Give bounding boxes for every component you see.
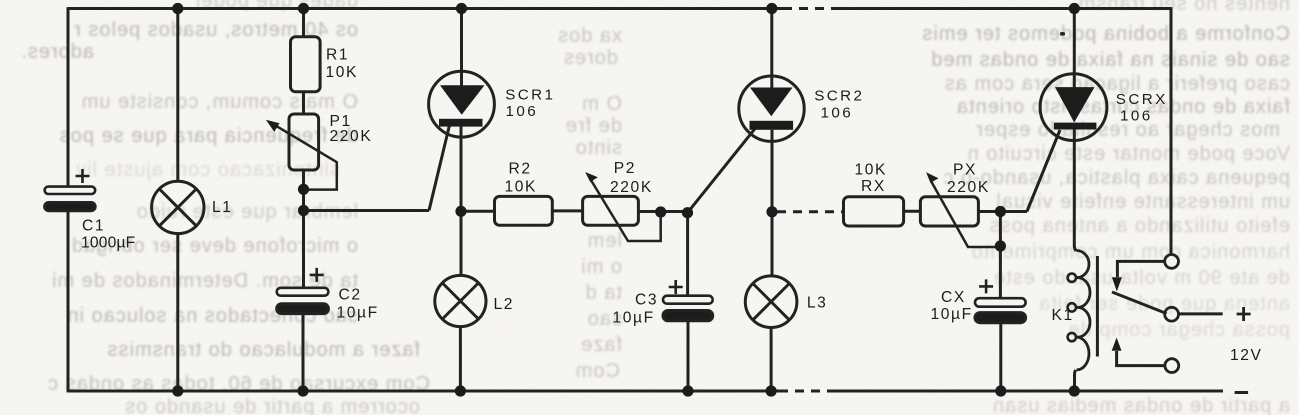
svg-text:lem: lem <box>587 230 622 252</box>
svg-text:fazer a modulacao do transmiss: fazer a modulacao do transmiss <box>107 339 420 361</box>
svg-text:106: 106 <box>506 103 539 120</box>
junction SCR2 gate node <box>682 207 693 218</box>
svg-text:CX: CX <box>941 289 966 306</box>
arrow up armature indicator <box>1112 338 1122 351</box>
capacitor C1 bottom plate <box>45 203 96 211</box>
wire top rail solid right <box>836 7 1171 10</box>
svg-text:106: 106 <box>821 104 854 121</box>
wire PX to gate node <box>978 210 1027 213</box>
junction bottom rail K1 coil <box>1069 385 1080 396</box>
wire common to plus <box>1178 312 1223 315</box>
wire bottom rail solid left <box>68 390 779 393</box>
wire top rail dashed extension <box>783 7 836 10</box>
capacitor C3 top plate <box>663 296 713 304</box>
svg-text:O mais comum, consiste um: O mais comum, consiste um <box>81 91 358 113</box>
relay contact terminal 2 (common) <box>1165 307 1179 321</box>
svg-text:L1: L1 <box>212 199 233 216</box>
svg-text:de fre: de fre <box>565 115 622 137</box>
svg-text:SCR1: SCR1 <box>505 86 555 103</box>
capacitor CX top plate <box>975 298 1026 307</box>
capacitor C2 top plate <box>277 288 329 296</box>
svg-text:SCR2: SCR2 <box>814 88 864 105</box>
svg-text:possa chegar comp de: possa chegar comp de <box>1068 319 1290 341</box>
wire SCRX gate lead <box>1027 130 1060 212</box>
svg-text:10µF: 10µF <box>613 310 655 327</box>
svg-text:P2: P2 <box>614 160 636 177</box>
junction SCR1 cathode node <box>455 206 466 217</box>
svg-text:ocorrem a partir de usando os: ocorrem a partir de usando os <box>124 396 420 415</box>
relay K1 core line <box>1096 256 1099 357</box>
wire left edge vertical below C1 <box>67 211 70 393</box>
junction top rail L1 branch <box>172 3 183 14</box>
wire SCR2 gate lead <box>688 128 756 213</box>
wire SCR1 cathode node to R2 <box>461 210 495 213</box>
potentiometer PX wiper arrow <box>931 181 1000 247</box>
svg-text:220K: 220K <box>330 128 373 145</box>
svg-text:efeito utilizando a antena pos: efeito utilizando a antena poss <box>989 215 1290 237</box>
svg-text:C1: C1 <box>82 218 105 235</box>
svg-text:faze: faze <box>580 334 622 356</box>
wire L1 branch bottom <box>176 234 179 391</box>
wire trigger bus stage3 dashed <box>777 210 844 213</box>
svg-text:L3: L3 <box>807 294 828 311</box>
junction bottom rail CX branch <box>995 385 1006 396</box>
junction top rail SCRX anode <box>1069 3 1080 14</box>
svg-text:220K: 220K <box>947 179 990 196</box>
junction PX wiper node <box>995 240 1006 251</box>
wire L1 branch top <box>176 9 179 182</box>
relay contact terminal 1 <box>1165 255 1179 269</box>
capacitor C2 plus sign <box>310 268 324 282</box>
wire bottom rail dashed extension <box>779 390 834 393</box>
wire CX to bottom rail <box>999 323 1002 391</box>
ink speck artifact <box>1060 32 1065 36</box>
potentiometer P1 wiper arrow <box>272 123 337 189</box>
wire coil to bottom rail <box>1075 370 1076 391</box>
bleed-through text left column <box>20 0 430 415</box>
supply minus sign <box>1235 391 1249 394</box>
junction P2 wiper node <box>655 206 666 217</box>
resistor RX <box>844 197 904 226</box>
svg-text:um interessante enfeite visual: um interessante enfeite visual <box>995 191 1290 213</box>
capacitor C3 bottom plate <box>663 311 713 321</box>
wire SCR1 cathode to L2 <box>460 126 463 276</box>
svg-text:harmonica com um comprimento: harmonica com um comprimento <box>971 241 1290 263</box>
wire P1 to C2 <box>302 170 305 288</box>
svg-text:dades que poder: dades que poder <box>193 0 358 12</box>
potentiometer P2 wiper arrow <box>591 180 661 242</box>
lamp L1 <box>152 181 204 233</box>
capacitor C1 plus sign <box>76 169 90 183</box>
thyristor SCR1 <box>429 71 495 137</box>
lamp L3 <box>745 276 797 328</box>
wire left edge vertical above C1 <box>67 7 70 187</box>
wire CX branch <box>999 212 1002 299</box>
junction top rail SCR1 anode <box>456 3 467 14</box>
resistor R1 <box>291 37 321 92</box>
contact blade <box>1112 292 1167 314</box>
wire R1 branch top <box>302 9 305 37</box>
potentiometer P2 body <box>583 196 639 225</box>
svg-text:xa dos: xa dos <box>557 25 622 47</box>
capacitor C2 bottom plate <box>277 304 329 314</box>
capacitor C3 plus sign <box>669 280 683 294</box>
svg-text:C3: C3 <box>635 292 658 309</box>
wire R1 to P1 <box>302 92 305 114</box>
junction SCRX gate node <box>995 206 1006 217</box>
junction bottom rail C2 branch <box>297 385 308 396</box>
wire RX to PX <box>904 210 921 213</box>
junction SCR2 cathode node <box>766 206 777 217</box>
potentiometer PX body <box>920 197 978 226</box>
junction bottom rail L1 branch <box>172 385 183 396</box>
wire C2 to bottom rail <box>302 314 305 391</box>
bleed-through text right column <box>921 0 1290 415</box>
svg-text:ta d: ta d <box>585 282 622 304</box>
wire top rail solid left <box>68 7 783 10</box>
junction bottom rail C3 branch <box>682 385 693 396</box>
svg-text:o mi: o mi <box>580 256 622 278</box>
resistor R2 <box>495 196 553 225</box>
svg-text:sinto: sinto <box>575 137 622 159</box>
svg-text:L2: L2 <box>494 296 515 313</box>
svg-text:220K: 220K <box>610 179 653 196</box>
svg-text:106: 106 <box>1120 107 1153 124</box>
svg-text:PX: PX <box>953 162 977 179</box>
junction P1 wiper node <box>298 184 309 195</box>
wire SCR1 gate lead <box>429 126 449 211</box>
wire R2 to P2 <box>552 209 582 212</box>
junction top rail SCR2 anode <box>766 3 777 14</box>
svg-text:SCRX: SCRX <box>1116 91 1168 108</box>
svg-text:10µF: 10µF <box>337 304 379 321</box>
wire P2 to gate node <box>638 210 687 213</box>
svg-text:1000µF: 1000µF <box>81 235 135 252</box>
wire trigger bus stage1 <box>304 209 430 212</box>
wire SCR2 cathode to L3 <box>771 130 774 276</box>
svg-text:R1: R1 <box>326 47 349 64</box>
svg-text:K1: K1 <box>1052 307 1074 324</box>
svg-text:C2: C2 <box>339 287 362 304</box>
thyristor SCR2 <box>739 76 804 141</box>
svg-text:RX: RX <box>861 178 886 195</box>
junction bottom rail L2 branch <box>455 385 466 396</box>
supply plus sign <box>1237 307 1251 321</box>
svg-text:a partir de ondas medias usan: a partir de ondas medias usan <box>992 395 1290 415</box>
svg-text:10µF: 10µF <box>931 306 973 323</box>
junction bottom rail L3 branch <box>766 385 777 396</box>
wire right edge vertical <box>1170 7 1173 255</box>
junction top rail R1 branch <box>298 3 309 14</box>
svg-text:10K: 10K <box>855 162 888 179</box>
wire contact1 lead <box>1117 261 1165 277</box>
svg-text:adores.: adores. <box>20 41 94 63</box>
svg-text:Voce pode montar este circuito: Voce pode montar este circuito n <box>967 143 1290 165</box>
wire L3 to bottom rail <box>770 328 773 392</box>
wire bottom rail solid right <box>834 390 1223 393</box>
svg-text:dores: dores <box>563 47 618 69</box>
svg-text:de ate 90 m volta usando este: de ate 90 m volta usando este <box>993 267 1290 289</box>
capacitor C1 top plate <box>45 187 96 194</box>
svg-text:Com: Com <box>575 360 620 382</box>
wire SCRX cathode to relay coil <box>1074 130 1076 252</box>
wire C3 to bottom rail <box>687 321 690 391</box>
svg-text:Conforme a bobina podemos ter: Conforme a bobina podemos ter emis <box>921 23 1290 45</box>
arrow down armature indicator <box>1112 277 1122 291</box>
capacitor CX bottom plate <box>975 313 1026 323</box>
relay contact terminal 3 <box>1165 359 1179 373</box>
capacitor CX plus sign <box>979 279 993 293</box>
potentiometer P1 body <box>289 114 319 170</box>
svg-text:O m: O m <box>581 93 622 115</box>
junction P1 trigger node <box>298 205 309 216</box>
svg-text:R2: R2 <box>509 160 532 177</box>
svg-text:12V: 12V <box>1230 347 1263 364</box>
bleed-through text middle column <box>557 25 622 382</box>
svg-text:10K: 10K <box>326 64 359 81</box>
svg-text:de frequencia para que se pos: de frequencia para que se pos <box>59 125 358 147</box>
wire C3 branch <box>686 213 689 296</box>
svg-text:sao de sinais na faixa de onda: sao de sinais na faixa de ondas med <box>930 49 1290 71</box>
wire contact3 lead <box>1117 351 1166 366</box>
svg-text:pequena caixa plastica, usando: pequena caixa plastica, usando-o c <box>942 167 1290 189</box>
thyristor SCRX <box>1040 74 1107 141</box>
relay K1 coil loops <box>1077 251 1091 370</box>
svg-text:10K: 10K <box>505 178 538 195</box>
wire L2 to bottom rail <box>459 327 462 391</box>
lamp L2 <box>435 275 486 326</box>
